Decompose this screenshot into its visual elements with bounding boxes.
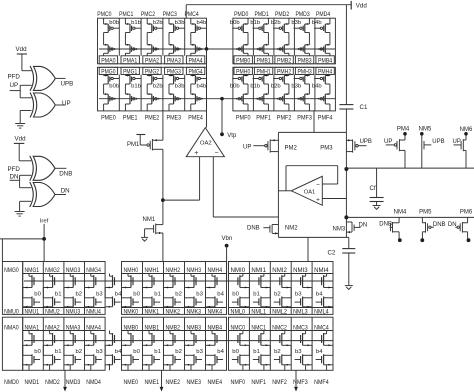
transistor PMG0: [101, 69, 119, 111]
transistor NM5: [419, 127, 445, 169]
svg-text:DNB: DNB: [59, 171, 72, 178]
wire U1 output UPB: [56, 78, 74, 87]
wire DN input: [10, 175, 32, 187]
transistor PMH3: [291, 69, 312, 111]
svg-text:NML4: NML4: [314, 309, 329, 316]
node PFD UP input: [8, 74, 21, 90]
transistor NMU0: [4, 309, 19, 316]
wire array frame (NMG1 block): [23, 262, 105, 371]
wire gate rail (NMA/NMB/NMC row): [24, 340, 333, 342]
power Vdd (right rail): [351, 1, 367, 10]
svg-text:NMH3: NMH3: [187, 267, 202, 274]
transistor NMA1: [23, 324, 41, 370]
transistor PM2: [243, 139, 298, 152]
svg-text:PM6: PM6: [460, 210, 473, 216]
svg-text:NMA0: NMA0: [4, 324, 19, 331]
ground (Cf): [373, 205, 381, 207]
wire core bottom rail: [278, 236, 348, 238]
svg-text:b3: b3: [96, 349, 103, 355]
svg-text:PMA2: PMA2: [145, 58, 160, 65]
transistor PMB2: [277, 58, 292, 65]
wire array frame (NMI0 block): [229, 262, 334, 371]
transistor NME3: [187, 379, 202, 386]
transistor NMG extra column (b4): [105, 274, 122, 308]
svg-text:NMF0: NMF0: [231, 379, 246, 386]
wire Vdd to U1 input: [21, 68, 23, 71]
svg-text:UP: UP: [10, 82, 19, 89]
svg-text:NMA4: NMA4: [86, 324, 101, 331]
transistor PMC3: [163, 11, 185, 56]
svg-text:NME3: NME3: [187, 379, 202, 386]
power Vdd (DN gate pair): [14, 136, 26, 160]
transistor PMC2: [141, 11, 163, 56]
svg-text:DNB: DNB: [433, 222, 446, 228]
transistor PMD4: [312, 11, 331, 56]
transistor PMB0: [236, 58, 251, 65]
svg-text:b0: b0: [232, 292, 239, 298]
transistor PMF4: [318, 115, 333, 122]
svg-text:PMF4: PMF4: [318, 115, 333, 122]
svg-text:b2: b2: [274, 349, 281, 355]
svg-text:b0: b0: [133, 349, 140, 355]
svg-text:NMC1: NMC1: [251, 324, 266, 331]
svg-text:Vdd: Vdd: [16, 46, 28, 53]
svg-text:b3: b3: [295, 292, 302, 298]
wire gate rail Vbp (PMA/PMB row): [99, 48, 335, 50]
wire Vdd to U3 input: [19, 159, 31, 161]
transistor NML4: [314, 309, 329, 316]
svg-text:b3: b3: [96, 292, 103, 298]
transistor NM4: [379, 210, 407, 243]
transistor PMD0: [230, 11, 249, 56]
transistor PMG4: [189, 69, 207, 111]
svg-text:UP: UP: [62, 100, 71, 107]
svg-text:NM5: NM5: [419, 127, 432, 133]
ground (DN gate pair): [15, 211, 25, 213]
transistor NM3: [333, 222, 368, 233]
svg-text:DN: DN: [61, 188, 70, 195]
transistor PMA3: [167, 58, 182, 65]
wire U4 lower input to ground: [20, 201, 32, 211]
svg-text:NML0: NML0: [231, 309, 246, 316]
transistor NMB1: [143, 324, 161, 370]
transistor NME4: [208, 379, 223, 386]
svg-text:+: +: [316, 197, 320, 204]
svg-text:PME4: PME4: [188, 115, 203, 122]
svg-text:NMK1: NMK1: [145, 309, 160, 316]
transistor NMU1: [25, 309, 40, 316]
transistor NME0: [124, 379, 139, 386]
svg-text:b4b: b4b: [312, 83, 322, 89]
svg-text:PMD4: PMD4: [316, 11, 331, 18]
svg-text:b1b: b1b: [131, 20, 141, 26]
svg-text:NMG1: NMG1: [25, 267, 40, 274]
svg-text:NMC2: NMC2: [272, 324, 287, 331]
power Vdd (UP gate pair): [16, 46, 28, 68]
transistor PMA1: [123, 58, 138, 65]
transistor NMA4: [85, 324, 103, 370]
transistor PME3: [167, 115, 182, 122]
transistor NML3: [293, 309, 308, 316]
svg-text:b1b: b1b: [131, 83, 141, 89]
wire OA1 + input: [322, 198, 346, 200]
svg-text:Vtp: Vtp: [227, 133, 237, 139]
svg-text:NMI3: NMI3: [293, 267, 308, 274]
transistor NMF3: [293, 379, 308, 386]
svg-text:PFD: PFD: [8, 166, 21, 173]
svg-text:PME0: PME0: [101, 115, 116, 122]
xor gate U1 (UPB): [30, 66, 55, 90]
transistor NMK0: [124, 309, 139, 316]
transistor NML0: [231, 309, 246, 316]
svg-text:PMA4: PMA4: [189, 58, 204, 65]
transistor NMI4: [314, 267, 333, 308]
transistor NMF0: [231, 379, 246, 386]
transistor PMG1: [123, 69, 141, 111]
node Vtp tap junction: [220, 97, 224, 101]
svg-text:NME1: NME1: [145, 379, 160, 386]
svg-text:PM3: PM3: [320, 146, 333, 152]
transistor NMU4: [86, 309, 101, 316]
svg-text:PMH1: PMH1: [257, 69, 272, 76]
svg-text:b2: b2: [175, 349, 182, 355]
svg-text:NMD3: NMD3: [66, 379, 81, 386]
svg-text:NMH2: NMH2: [166, 267, 181, 274]
svg-text:NM3: NM3: [333, 227, 346, 233]
wire U4 output DN: [55, 188, 70, 195]
svg-text:PMD1: PMD1: [255, 11, 270, 18]
capacitor C1: [339, 104, 368, 111]
svg-text:b2b: b2b: [153, 83, 163, 89]
svg-text:PM2: PM2: [285, 146, 298, 152]
transistor NMF1: [251, 379, 266, 386]
ground (UP gate pair): [15, 123, 25, 125]
svg-text:NMI4: NMI4: [314, 267, 329, 274]
svg-text:NML3: NML3: [293, 309, 308, 316]
transistor NMF4: [314, 379, 329, 386]
wire OA2 - input: [213, 157, 278, 217]
wire OA1 feedback loop: [286, 166, 338, 191]
transistor NMC0: [231, 324, 250, 370]
transistor NMH0: [122, 267, 140, 308]
svg-text:PMH4: PMH4: [318, 69, 333, 76]
transistor PMG3: [167, 69, 185, 111]
svg-text:PME1: PME1: [123, 115, 138, 122]
wire output line upper: [346, 167, 474, 169]
wire core right rail (output): [345, 132, 347, 237]
transistor PMD1: [250, 11, 269, 56]
transistor PMF2: [277, 115, 292, 122]
svg-text:b4: b4: [217, 292, 224, 298]
svg-text:PMC2: PMC2: [141, 11, 156, 18]
svg-text:PFD: PFD: [8, 74, 21, 81]
svg-text:PMC1: PMC1: [119, 11, 134, 18]
svg-text:NMH0: NMH0: [124, 267, 139, 274]
svg-text:b2b: b2b: [271, 20, 281, 26]
transistor NME1: [145, 379, 160, 386]
svg-text:b2: b2: [76, 292, 83, 298]
svg-text:PMA3: PMA3: [167, 58, 182, 65]
transistor NMG1: [23, 267, 41, 308]
svg-text:NMF4: NMF4: [314, 379, 329, 386]
transistor PM5: [419, 210, 445, 243]
svg-text:NML1: NML1: [251, 309, 266, 316]
svg-text:NMH1: NMH1: [145, 267, 160, 274]
svg-text:NMA3: NMA3: [66, 324, 81, 331]
wire array frame (PMC0 block): [98, 18, 207, 111]
svg-text:NMU3: NMU3: [66, 309, 81, 316]
svg-text:NMK0: NMK0: [124, 309, 139, 316]
svg-text:DNB: DNB: [247, 226, 260, 232]
wire array frame (NMG0 block): [2, 262, 22, 371]
wire output tap (NMF block): [294, 370, 298, 391]
svg-text:b1: b1: [55, 349, 62, 355]
svg-text:UP: UP: [384, 139, 392, 145]
svg-text:NME4: NME4: [208, 379, 223, 386]
transistor PME0: [101, 115, 116, 122]
svg-text:PMA1: PMA1: [123, 58, 138, 65]
svg-text:NME0: NME0: [124, 379, 139, 386]
transistor NMG3: [64, 267, 82, 308]
svg-text:b1: b1: [154, 292, 161, 298]
transistor PMF3: [297, 115, 312, 122]
transistor NMI3: [293, 267, 312, 308]
svg-text:Vbn: Vbn: [222, 236, 233, 242]
svg-text:b3b: b3b: [291, 83, 301, 89]
capacitor C2: [328, 237, 356, 285]
wire OA2 + input: [163, 157, 200, 200]
wire core supply feed: [313, 111, 315, 132]
transistor PMG2: [145, 69, 163, 111]
svg-text:NMB2: NMB2: [166, 324, 181, 331]
svg-text:PMC3: PMC3: [163, 11, 178, 18]
wire output tap (NMD block): [63, 370, 67, 391]
svg-text:OA1: OA1: [304, 189, 315, 195]
wire top Vdd rail: [186, 5, 351, 19]
transistor NMU3: [66, 309, 81, 316]
transistor NML2: [272, 309, 287, 316]
capacitor Cf: [370, 168, 384, 205]
wire output tap (NME block): [160, 370, 164, 391]
transistor NM2: [247, 225, 298, 235]
transistor NMG4: [85, 267, 103, 308]
svg-text:b0: b0: [133, 292, 140, 298]
svg-text:DN: DN: [10, 174, 19, 181]
transistor NMC1: [251, 324, 270, 370]
svg-text:NMH4: NMH4: [208, 267, 223, 274]
transistor PMB1: [257, 58, 272, 65]
wire UP input: [10, 85, 32, 98]
svg-text:b0: b0: [34, 292, 41, 298]
wire output line lower: [346, 216, 474, 218]
svg-text:PMB1: PMB1: [257, 58, 272, 65]
node Iref junction: [42, 237, 46, 241]
node Iref: [40, 219, 49, 262]
transistor PMH1: [250, 69, 271, 111]
svg-text:b3b: b3b: [175, 20, 185, 26]
svg-text:−: −: [316, 182, 320, 189]
svg-text:b0: b0: [232, 349, 239, 355]
wire gate rail (PME/PMF row): [99, 98, 335, 100]
svg-text:PMF3: PMF3: [297, 115, 312, 122]
transistor PMA0: [101, 58, 116, 65]
transistor NMH3: [185, 267, 203, 308]
svg-text:NM1: NM1: [143, 217, 156, 223]
svg-text:b1: b1: [253, 292, 260, 298]
svg-text:NMC0: NMC0: [231, 324, 246, 331]
wire OA1 output: [278, 190, 291, 192]
svg-text:Vdd: Vdd: [356, 2, 368, 9]
svg-text:NME2: NME2: [166, 379, 181, 386]
node PFD DN input: [8, 166, 21, 181]
transistor PMH4: [312, 69, 333, 111]
transistor NMA3: [64, 324, 82, 370]
svg-text:b1b: b1b: [250, 83, 260, 89]
svg-text:DN: DN: [448, 222, 457, 228]
svg-text:NMI2: NMI2: [272, 267, 287, 274]
wire U2 output UP: [56, 100, 71, 107]
svg-text:PMF1: PMF1: [256, 115, 271, 122]
svg-text:NMF3: NMF3: [293, 379, 308, 386]
svg-text:NMK3: NMK3: [187, 309, 202, 316]
svg-text:NMK2: NMK2: [166, 309, 181, 316]
svg-text:NMC4: NMC4: [314, 324, 329, 331]
transistor NMD3: [66, 379, 81, 386]
svg-text:NMA1: NMA1: [25, 324, 40, 331]
svg-text:b4b: b4b: [197, 83, 207, 89]
transistor NMA2: [43, 324, 61, 370]
svg-text:NMD1: NMD1: [25, 379, 40, 386]
transistor NMB0: [122, 324, 140, 370]
node Vtp: [220, 99, 237, 139]
svg-text:NMU4: NMU4: [86, 309, 101, 316]
wire Vdd rail down to C1: [345, 5, 347, 105]
node output junction (lower): [344, 215, 348, 219]
wire core tail to NMOS array: [307, 237, 309, 261]
svg-text:Vdd: Vdd: [15, 136, 27, 143]
transistor PMD3: [291, 11, 310, 56]
transistor NMA0: [4, 324, 19, 331]
transistor NMC3: [293, 324, 312, 370]
svg-text:Cf: Cf: [370, 186, 376, 192]
wire C1 to output node: [345, 109, 347, 132]
wire PM1 to NM1: [162, 149, 164, 224]
svg-text:PMC0: PMC0: [97, 11, 112, 18]
ground (NM1 gate): [141, 237, 148, 241]
transistor NMB2: [164, 324, 182, 370]
wire gate rail (NMG/NMH/NMI row): [24, 280, 333, 282]
transistor NMK2: [166, 309, 181, 316]
wire U3 output DNB: [55, 168, 72, 177]
op-amp OA2: [186, 128, 224, 158]
svg-text:NMF1: NMF1: [251, 379, 266, 386]
svg-text:PMB2: PMB2: [277, 58, 292, 65]
svg-text:NMF2: NMF2: [272, 379, 287, 386]
node output junction (C1/Cf): [344, 167, 348, 171]
svg-text:NMI1: NMI1: [251, 267, 266, 274]
svg-text:NMG4: NMG4: [86, 267, 101, 274]
transistor NMH4: [206, 267, 225, 308]
svg-text:NMB3: NMB3: [187, 324, 202, 331]
svg-text:b3b: b3b: [175, 83, 185, 89]
svg-text:PMD0: PMD0: [234, 11, 249, 18]
transistor NMD1: [25, 379, 40, 386]
svg-text:UP: UP: [243, 144, 251, 150]
transistor PME4: [188, 115, 203, 122]
svg-text:NMD0: NMD0: [4, 379, 19, 386]
svg-text:PMF0: PMF0: [236, 115, 251, 122]
wire core top rail: [278, 131, 346, 133]
transistor NMK3: [187, 309, 202, 316]
transistor NMK1: [145, 309, 160, 316]
node OA2 + input junction: [161, 198, 165, 202]
transistor PMB3: [298, 58, 313, 65]
svg-text:b0b: b0b: [109, 83, 119, 89]
transistor NME2: [166, 379, 181, 386]
transistor NMD4: [86, 379, 101, 386]
transistor NM1: [143, 217, 163, 237]
svg-text:b3b: b3b: [291, 20, 301, 26]
transistor PMC1: [119, 11, 141, 56]
svg-text:b4b: b4b: [312, 20, 322, 26]
svg-text:PMB4: PMB4: [318, 58, 333, 65]
transistor NMG0: [4, 267, 19, 274]
svg-text:PMD3: PMD3: [296, 11, 311, 18]
svg-text:b1: b1: [253, 349, 260, 355]
svg-text:−: −: [215, 150, 219, 157]
transistor NMU2: [45, 309, 60, 316]
wire U2 lower input to ground: [20, 111, 31, 124]
wire Iref bus: [0, 238, 44, 240]
transistor NMF2: [272, 379, 287, 386]
svg-text:PME3: PME3: [167, 115, 182, 122]
svg-text:PM5: PM5: [419, 210, 432, 216]
svg-text:UPB: UPB: [360, 139, 372, 145]
wire array frame (NMH0 block): [122, 262, 227, 371]
svg-text:b1b: b1b: [250, 20, 260, 26]
svg-text:b0b: b0b: [230, 20, 240, 26]
svg-text:OA2: OA2: [200, 140, 212, 146]
wire core left rail: [277, 132, 279, 237]
transistor NML1: [251, 309, 266, 316]
op-amp OA1 (unity feedback): [291, 176, 322, 205]
svg-text:b3: b3: [196, 292, 203, 298]
transistor PMF1: [256, 115, 271, 122]
transistor NMA extra column (b4): [105, 331, 122, 371]
svg-text:b3: b3: [196, 349, 203, 355]
svg-text:b0b: b0b: [109, 20, 119, 26]
transistor PMC4: [185, 11, 207, 56]
svg-text:PMB0: PMB0: [236, 58, 251, 65]
svg-text:C1: C1: [360, 104, 368, 111]
node OA2 output junction: [205, 47, 209, 51]
svg-text:b4: b4: [316, 349, 323, 355]
transistor PMF0: [236, 115, 251, 122]
svg-text:NM4: NM4: [394, 210, 407, 216]
wire left rail to NMOS array: [1, 239, 3, 262]
ground (C2): [345, 285, 353, 287]
svg-text:PMA0: PMA0: [101, 58, 116, 65]
svg-text:NMD2: NMD2: [45, 379, 60, 386]
svg-text:NMU1: NMU1: [25, 309, 40, 316]
transistor NMG2: [43, 267, 61, 308]
svg-text:PMH0: PMH0: [236, 69, 251, 76]
wire OA2 output to Vbp rail: [206, 49, 208, 128]
svg-text:b0: b0: [34, 349, 41, 355]
transistor NMK4: [208, 309, 223, 316]
svg-text:NMC3: NMC3: [293, 324, 308, 331]
svg-text:PMB3: PMB3: [298, 58, 313, 65]
